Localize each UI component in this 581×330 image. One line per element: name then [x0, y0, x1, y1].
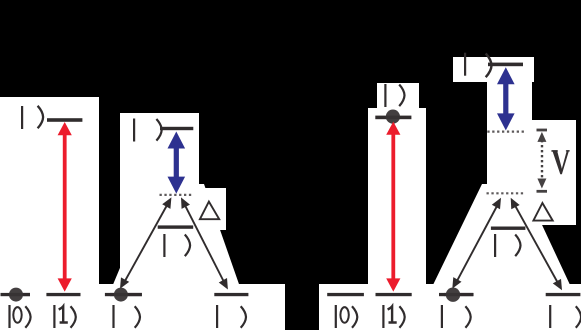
lambda ground-left level right-panel [439, 293, 473, 296]
lambda right arm right-panel [507, 196, 567, 293]
Delta label right [533, 203, 552, 221]
ket label above excited atom [384, 84, 404, 107]
middle level of lambda left [158, 225, 194, 228]
ket label under middle level left [163, 234, 190, 257]
atom circle on level 0 [9, 288, 23, 302]
ket label lambda-left [112, 305, 140, 328]
label |0> right [335, 305, 358, 328]
label |0> left [8, 305, 30, 328]
level line middle-top [160, 127, 193, 130]
label |1> left [53, 305, 76, 328]
lambda ground-right level right-panel [546, 293, 581, 296]
lambda left arm (double headed) [116, 195, 176, 291]
ket label lambda-right right-panel [549, 305, 581, 328]
level line right-up [375, 116, 411, 120]
level 0 right [327, 293, 364, 296]
level 1 right [376, 293, 412, 296]
dashed virtual level left [160, 194, 192, 196]
lambda ground-right level [214, 293, 248, 296]
atom circle lambda left [114, 288, 128, 302]
V bracket bottom tick [537, 190, 548, 193]
atom circle lambda right-panel [446, 288, 460, 302]
label |1> right [382, 305, 404, 328]
blue double arrow left [168, 132, 186, 194]
ket label lambda-right [216, 305, 246, 328]
Delta label left [200, 202, 219, 220]
ket label under middle level right [494, 234, 521, 257]
red double arrow right [386, 122, 400, 292]
ket label top-right Rydberg [464, 53, 492, 77]
V label italic serif [551, 150, 569, 174]
dashed shifted level upper [487, 131, 525, 133]
V bracket dotted vertical with arrows [537, 132, 546, 189]
lambda right arm (double headed) [177, 195, 232, 291]
level 1 left [46, 293, 80, 296]
excited atom circle [386, 110, 400, 124]
level line e-left [47, 118, 82, 122]
red double arrow left [58, 122, 72, 292]
ket label middle | > [133, 119, 162, 142]
lambda ground-left level [105, 293, 142, 296]
lambda left arm right-panel [448, 196, 505, 291]
ket label top-left | > [21, 106, 43, 129]
level 0 left [1, 293, 31, 296]
V bracket top tick [537, 129, 548, 132]
dashed virtual level right apex [487, 192, 526, 194]
blue double arrow right [497, 67, 515, 130]
Rydberg level line [488, 63, 523, 67]
middle level of lambda right [491, 227, 526, 230]
ket label lambda-left right-panel [441, 305, 471, 328]
